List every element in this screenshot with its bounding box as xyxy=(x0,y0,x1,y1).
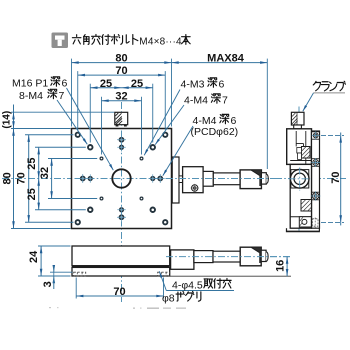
svg-text:MAX84: MAX84 xyxy=(207,53,245,65)
svg-text:25: 25 xyxy=(26,157,38,169)
svg-text:32: 32 xyxy=(39,167,51,179)
svg-text:25: 25 xyxy=(26,188,38,200)
svg-text:3: 3 xyxy=(42,281,54,287)
svg-text:70: 70 xyxy=(115,65,127,77)
svg-text:7: 7 xyxy=(222,95,228,107)
svg-text:4-φ4.5: 4-φ4.5 xyxy=(172,279,203,291)
svg-text:16: 16 xyxy=(274,260,286,272)
svg-text:32: 32 xyxy=(115,91,127,103)
svg-text:24: 24 xyxy=(28,250,40,263)
svg-text:4-M3: 4-M3 xyxy=(181,79,205,91)
svg-text:4-M4: 4-M4 xyxy=(184,95,208,107)
svg-text:7: 7 xyxy=(59,90,65,102)
svg-text:8-M4: 8-M4 xyxy=(19,90,43,102)
svg-text:80: 80 xyxy=(2,172,14,184)
svg-text:25: 25 xyxy=(131,78,143,90)
svg-text:25: 25 xyxy=(100,78,112,90)
svg-text:M16 P1: M16 P1 xyxy=(12,78,48,90)
svg-text:6: 6 xyxy=(62,78,68,90)
svg-text:φ8: φ8 xyxy=(162,292,175,304)
svg-text:(PCDφ62): (PCDφ62) xyxy=(191,126,239,138)
svg-text:70: 70 xyxy=(15,172,27,184)
svg-text:6: 6 xyxy=(219,79,225,91)
svg-text:70: 70 xyxy=(113,286,125,298)
svg-text:M4×8···4: M4×8···4 xyxy=(139,37,182,48)
svg-text:80: 80 xyxy=(115,53,127,65)
svg-text:70: 70 xyxy=(330,171,342,183)
svg-text:(14): (14) xyxy=(1,111,12,129)
